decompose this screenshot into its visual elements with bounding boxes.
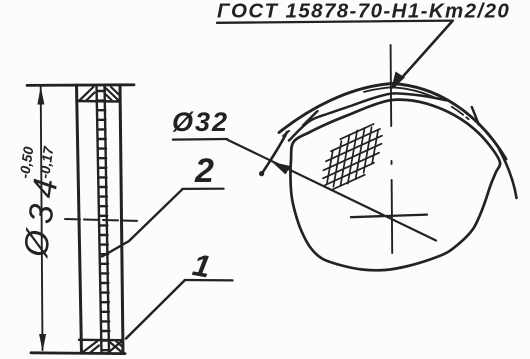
top-left hatch [80,87,95,101]
band right end cut stroke [499,149,517,198]
top-right hatch [105,87,119,100]
label 2 leader [102,189,182,256]
band right tick [472,107,479,125]
right view: piston blob outline [290,100,500,271]
band left tick [303,112,317,126]
label 1 underline [185,279,233,282]
dimension arrow top [37,87,44,105]
bottom-right hatch [109,341,123,352]
right wall line [120,85,123,353]
band dash-dot centerline arc [283,87,502,158]
bottom hatched box top edge [79,339,123,342]
left wall line [77,85,82,353]
dimension line Ø34 [41,87,43,350]
top hatched box bottom edge [77,100,121,103]
phi32 arrow [272,162,291,175]
label 2 underline [182,188,223,190]
top extension/edge line [27,83,134,86]
label 1 leader [126,280,185,338]
section centerline [65,219,140,221]
hatch patch (weld zone) : steep hatch lines [323,124,382,190]
core strip right line [105,85,110,352]
left cut stroke end blob [259,171,264,176]
band left end cut stroke [261,132,287,175]
svg-text:ГOCT 15878-70-H1-Km2/20: ГOCT 15878-70-H1-Km2/20 [217,0,510,23]
band outer arc [279,84,506,160]
core strip rungs [97,91,110,350]
bottom extension/edge line [31,351,125,355]
vertical centerline of right view [391,45,393,253]
svg-text:2: 2 [194,152,214,190]
GOST leader arrow [391,72,405,91]
core strip left line [97,85,102,353]
GOST leader [394,22,452,87]
svg-text:Ø32: Ø32 [172,107,229,137]
phi32 underline [173,138,227,141]
GOST text underline [217,21,453,23]
hatch patch gentle lines [323,124,382,190]
dimension arrow bottom [39,334,46,352]
bottom-left hatch [83,341,99,352]
horizontal center bar [351,215,427,218]
band inner arc [289,93,446,140]
dimension text Ø34 -0.17 -0.50 (rotated) [16,144,66,260]
phi32 leader line [227,140,436,241]
